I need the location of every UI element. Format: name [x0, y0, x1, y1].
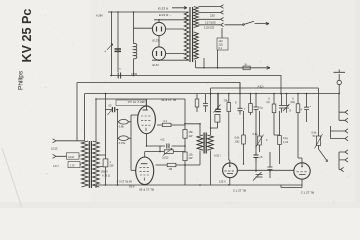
wire trimmer row [160, 146, 185, 152]
terminal out 4 [331, 126, 349, 141]
wire fuse line y67.8 [196, 58, 271, 68]
terminal out 5 [339, 150, 348, 154]
terminal input 1 [53, 139, 85, 143]
svg-text:El Z3 W →: El Z3 W → [159, 13, 172, 17]
wire bottom rail [96, 185, 302, 188]
wire tube2 anode row y165 [156, 164, 186, 166]
capacitor RF4 [238, 83, 243, 115]
resistor RF1 [196, 94, 198, 99]
svg-text:70k: 70k [224, 99, 229, 103]
transformer T1 secondary winding [194, 7, 199, 28]
wire secondary taps [100, 155, 106, 167]
svg-text:12k: 12k [189, 153, 194, 157]
svg-text:⌐02: ⌐02 [160, 138, 165, 142]
svg-text:A 52 i: A 52 i [214, 154, 221, 158]
svg-text:460 V, 70 mA: 460 V, 70 mA [128, 100, 145, 104]
wire bus y99 [96, 98, 185, 100]
terminal out 2 [339, 118, 348, 122]
svg-text:(0k): (0k) [291, 100, 296, 104]
svg-text:U: U [292, 97, 294, 101]
svg-text:El Z3: El Z3 [153, 39, 160, 43]
tube U1 pentode RL12P35 [138, 106, 156, 134]
svg-text:1,34: 1,34 [283, 140, 289, 144]
fuse Si [243, 66, 250, 70]
capacitor C3 0.5W on y75.5 [110, 76, 281, 94]
resistor R7 [215, 115, 220, 123]
wire drop x96 [95, 99, 97, 142]
svg-text:0,5W: 0,5W [131, 72, 138, 76]
transformer T3 output core [204, 133, 206, 154]
middle row: resistor RF13 [279, 111, 281, 136]
resistor R6 12k [183, 152, 187, 161]
resistor box 0.1M [67, 153, 80, 159]
wire choke bottom [133, 59, 135, 76]
right trimmer RF14 [316, 136, 320, 146]
resistor RF9 [297, 94, 299, 104]
wire heater bottom y60 [152, 59, 189, 61]
wire between rectifiers [158, 36, 160, 47]
transformer T1 primary winding [184, 12, 189, 60]
wire drop x117.5 [117, 110, 119, 186]
wire mains tap 0 [198, 5, 223, 9]
wire drop x318 [318, 88, 320, 136]
svg-text:0,1μ: 0,1μ [283, 136, 289, 140]
terminal out 3 [331, 129, 349, 133]
transformer T3 left winding [197, 135, 203, 150]
transformer T2 input core [89, 141, 91, 188]
svg-text:Philips: Philips [18, 70, 25, 90]
resistor R8 oval 0.8k [118, 115, 132, 170]
capacitor RF8 trimmer [279, 94, 284, 113]
wire drop x112 [111, 12, 113, 76]
capacitor C1 electrolytic [115, 49, 122, 51]
svg-text:Wf RL 12 K 8: Wf RL 12 K 8 [116, 180, 132, 184]
wire anode upper [166, 28, 184, 30]
svg-text:0,6k: 0,6k [235, 136, 241, 140]
svg-text:125 V: 125 V [219, 180, 226, 184]
wire tube1 anode to grid row [157, 124, 185, 126]
svg-text:170: 170 [70, 163, 75, 167]
svg-text:(0): (0) [267, 100, 270, 104]
svg-text:RL 12 T 2: RL 12 T 2 [301, 191, 314, 195]
svg-text:El Z3 N: El Z3 N [158, 7, 169, 11]
switch S1 mains [225, 24, 243, 26]
resistor RF5 [250, 94, 252, 104]
svg-text:2W: 2W [189, 156, 193, 160]
capacitor RF10 [304, 94, 309, 122]
wire mid column x183.5 [184, 99, 186, 185]
transformer T2 left winding [82, 141, 89, 187]
tube El Z3 (upper rectifier) [152, 22, 165, 35]
resistor RF3 [228, 94, 230, 103]
trimmer R3 [164, 150, 173, 154]
svg-text:280 V: 280 V [101, 170, 108, 174]
svg-text:0,012: 0,012 [162, 156, 169, 160]
wire main bus y93.6 [85, 93, 340, 95]
wire bus y82.5 [77, 83, 240, 94]
capacitor RF2 [203, 94, 208, 112]
svg-text:127/150: 127/150 [205, 20, 216, 24]
svg-text:A 79 Ω: A 79 Ω [102, 174, 110, 178]
wire drop x105.5 [105, 94, 107, 159]
svg-text:0,1μ: 0,1μ [258, 106, 264, 110]
wire drop x77 [76, 83, 78, 142]
paper speckle [12, 4, 352, 204]
svg-text:A 28V: A 28V [96, 14, 103, 18]
wire drop x118 [117, 12, 119, 72]
transformer T2 right winding [93, 141, 100, 187]
wire mains tap 220 [198, 11, 223, 15]
resistor R2 0.1 [162, 123, 171, 126]
svg-text:0,1μ: 0,1μ [253, 132, 259, 136]
svg-text:El Z3: El Z3 [153, 63, 160, 67]
wire top rail [108, 11, 188, 13]
svg-text:15k: 15k [189, 130, 194, 134]
trimmer capacitor C8 [215, 94, 221, 112]
resistor R4 1M [167, 163, 176, 166]
fuse holder box 110/220 [217, 38, 228, 50]
svg-text:RL 12 P 35: RL 12 P 35 [161, 98, 176, 102]
wire bus y88 [211, 88, 319, 94]
tube U4 triode RL12T2 [294, 163, 310, 179]
capacitor RF6 [254, 94, 259, 152]
wire heater line y19.8 [154, 20, 188, 23]
svg-text:0,152: 0,152 [119, 141, 126, 145]
svg-text:0,1M: 0,1M [68, 155, 74, 159]
resistor R5 15k [183, 130, 187, 139]
transformer T1 core [190, 7, 193, 62]
svg-text:1M: 1M [169, 167, 173, 171]
wire arrow to C1 [107, 44, 113, 50]
terminal out 6 [339, 152, 348, 162]
trimmer C7 [253, 172, 263, 181]
transformer T3 right winding [207, 135, 213, 150]
tube U3 triode RL12T2 [223, 163, 238, 178]
svg-text:110/125: 110/125 [204, 26, 215, 30]
wire fuse holder leads [218, 28, 223, 68]
wire mains tap 110/125 [198, 23, 223, 27]
resistor RF7 [273, 94, 275, 104]
middle row: trimmer RF12 [259, 111, 261, 136]
resistor R9 oval 0.152 [118, 137, 132, 139]
svg-text:A 0Ω: A 0Ω [129, 185, 135, 189]
wire tube1 grid [131, 114, 138, 116]
terminal input 2 [53, 154, 67, 158]
svg-text:1W: 1W [189, 134, 193, 138]
switch S2 blade [319, 149, 328, 162]
svg-text:0,1: 0,1 [219, 46, 223, 50]
wire transformer T3 leads [185, 124, 200, 165]
wire drop x210.6 anode line [210, 94, 212, 185]
wire y146 row [147, 134, 186, 146]
svg-text:RL 12 T 2: RL 12 T 2 [233, 188, 246, 192]
svg-text:10Ω: 10Ω [235, 140, 240, 144]
capacitor C4 with trimmer arrow [106, 109, 118, 111]
svg-text:A 52 i: A 52 i [258, 84, 265, 88]
capacitor C5 [167, 144, 169, 149]
svg-text:1/0,7: 1/0,7 [53, 164, 59, 168]
wire tube2 grid [131, 169, 136, 171]
svg-text:KV 25 Pc: KV 25 Pc [20, 9, 34, 63]
wire terminal drop x339 [338, 94, 340, 121]
tube El Z3 (lower rectifier) [152, 47, 165, 60]
wire mains tap 127/150 [198, 18, 223, 22]
terminal out 1 [339, 110, 348, 114]
svg-text:U: U [268, 97, 270, 101]
antenna symbol [334, 70, 346, 73]
wire drop x270 [268, 152, 273, 178]
svg-text:0,8k: 0,8k [119, 124, 125, 128]
terminal out 7 [339, 160, 344, 172]
svg-text:RL 12 P 35: RL 12 P 35 [139, 188, 154, 192]
capacitor C6 [254, 152, 259, 162]
svg-text:2W: 2W [110, 164, 114, 168]
svg-text:110: 110 [219, 39, 224, 43]
svg-text:220: 220 [219, 43, 224, 47]
svg-text:0,125: 0,125 [51, 147, 58, 151]
wire resistor bottom [105, 167, 107, 185]
resistor box 170 [68, 162, 80, 168]
wire box to transformer [79, 156, 81, 165]
wire anode lower [166, 53, 184, 55]
label box 260V 70mA [116, 100, 146, 106]
svg-text:220: 220 [210, 14, 215, 18]
wire tubes link y171 [237, 169, 294, 171]
faint fold streak lower left [2, 148, 22, 208]
wire drop x84.5 [84, 94, 86, 141]
svg-text:0,6k: 0,6k [312, 131, 318, 135]
svg-text:0,1: 0,1 [164, 119, 168, 123]
inductor choke L1 [134, 12, 153, 44]
resistor R1 2W [103, 159, 108, 167]
tube U2 pentode RL12P35 [136, 157, 154, 185]
middle row: resistor RF11 [243, 111, 245, 135]
